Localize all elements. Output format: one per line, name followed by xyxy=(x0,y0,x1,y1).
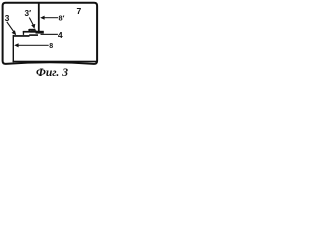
tube 8' (vertical stem from top border) xyxy=(38,3,40,32)
arrow 8' (points left at tube) xyxy=(43,17,58,18)
liner floor (inner horizontal line) xyxy=(13,61,97,63)
step bar top xyxy=(29,29,35,31)
step block under flange xyxy=(30,30,36,32)
plate line 4 xyxy=(41,34,58,35)
leader line 3 xyxy=(7,22,14,33)
svg-text:3: 3 xyxy=(5,13,10,23)
step bar bottom right xyxy=(29,34,38,36)
svg-text:8′: 8′ xyxy=(59,13,65,22)
step bar bottom left (element 3) xyxy=(14,35,30,37)
leader line 3' xyxy=(29,18,33,26)
step riser 1 xyxy=(23,31,24,35)
svg-text:8: 8 xyxy=(49,43,53,50)
arrow 8 (points left at liner wall) xyxy=(17,45,49,46)
svg-text:7: 7 xyxy=(77,6,82,16)
liner wall 8 (inner vertical line) xyxy=(13,35,14,62)
arrowhead of leader 3' xyxy=(31,24,35,29)
vessel outline 7 (outer frame, bottom edge bows up in scan) xyxy=(3,3,98,64)
arrowhead of leader 3 xyxy=(12,30,17,35)
flange at tube end xyxy=(36,31,44,34)
step riser 2 xyxy=(28,29,30,31)
svg-text:3′: 3′ xyxy=(25,9,32,18)
svg-text:4: 4 xyxy=(58,30,63,40)
svg-text:Фиг. 3: Фиг. 3 xyxy=(36,66,68,79)
step bar mid (element 3') xyxy=(23,31,37,33)
